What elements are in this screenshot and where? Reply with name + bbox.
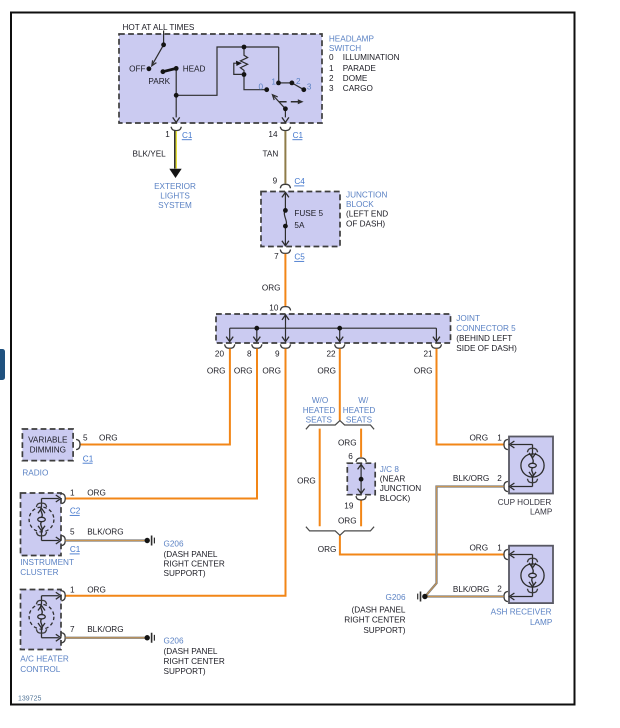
svg-text:3: 3 — [329, 84, 334, 93]
svg-text:SYSTEM: SYSTEM — [158, 201, 192, 210]
svg-text:ASH RECEIVER: ASH RECEIVER — [491, 608, 552, 617]
svg-text:LIGHTS: LIGHTS — [160, 191, 190, 200]
svg-text:SUPPORT): SUPPORT) — [164, 569, 206, 578]
svg-text:ORG: ORG — [414, 367, 433, 376]
svg-text:JUNCTION: JUNCTION — [346, 191, 387, 200]
svg-text:2: 2 — [329, 74, 334, 83]
svg-text:1: 1 — [271, 77, 276, 86]
svg-text:1: 1 — [329, 64, 334, 73]
svg-text:C1: C1 — [293, 131, 304, 140]
svg-text:19: 19 — [344, 501, 354, 510]
svg-text:5: 5 — [70, 527, 75, 536]
svg-text:CARGO: CARGO — [343, 84, 373, 93]
svg-text:21: 21 — [423, 350, 433, 359]
svg-text:PARADE: PARADE — [343, 64, 377, 73]
svg-text:3: 3 — [307, 82, 312, 91]
svg-text:8: 8 — [247, 350, 252, 359]
svg-text:(DASH PANEL: (DASH PANEL — [164, 550, 218, 559]
svg-text:0: 0 — [259, 82, 264, 91]
svg-text:RADIO: RADIO — [22, 468, 48, 477]
svg-text:BLK/ORG: BLK/ORG — [453, 585, 489, 594]
svg-text:RIGHT CENTER: RIGHT CENTER — [164, 559, 225, 568]
svg-text:JUNCTION: JUNCTION — [380, 484, 421, 493]
svg-text:(LEFT END: (LEFT END — [346, 210, 388, 219]
svg-text:ORG: ORG — [234, 367, 253, 376]
svg-text:HEADLAMP: HEADLAMP — [329, 34, 375, 43]
svg-text:DIMMING: DIMMING — [30, 446, 66, 455]
svg-text:HEAD: HEAD — [183, 65, 206, 74]
svg-text:C1: C1 — [182, 131, 193, 140]
svg-text:C1: C1 — [70, 545, 81, 554]
svg-text:BLK/ORG: BLK/ORG — [453, 474, 489, 483]
svg-text:ORG: ORG — [207, 367, 226, 376]
svg-text:JOINT: JOINT — [456, 314, 480, 323]
svg-text:CONNECTOR 5: CONNECTOR 5 — [456, 324, 516, 333]
svg-text:CUP HOLDER: CUP HOLDER — [498, 498, 552, 507]
svg-text:6: 6 — [348, 452, 353, 461]
svg-text:C4: C4 — [294, 177, 305, 186]
svg-text:C1: C1 — [83, 454, 94, 463]
svg-text:SWITCH: SWITCH — [329, 44, 361, 53]
svg-text:EXTERIOR: EXTERIOR — [154, 182, 196, 191]
svg-text:CONTROL: CONTROL — [20, 665, 60, 674]
svg-text:LAMP: LAMP — [530, 507, 553, 516]
svg-text:ORG: ORG — [87, 489, 106, 498]
svg-text:ORG: ORG — [99, 434, 118, 443]
svg-text:7: 7 — [70, 625, 75, 634]
svg-text:BLOCK): BLOCK) — [380, 494, 411, 503]
svg-text:(DASH PANEL: (DASH PANEL — [352, 605, 406, 614]
svg-text:VARIABLE: VARIABLE — [28, 435, 68, 444]
svg-text:RIGHT CENTER: RIGHT CENTER — [344, 616, 405, 625]
svg-text:RIGHT CENTER: RIGHT CENTER — [164, 657, 225, 666]
svg-text:1: 1 — [70, 489, 75, 498]
svg-text:22: 22 — [326, 350, 336, 359]
svg-text:SIDE OF DASH): SIDE OF DASH) — [456, 344, 517, 353]
svg-text:2: 2 — [497, 474, 502, 483]
svg-text:ORG: ORG — [338, 517, 357, 526]
svg-text:10: 10 — [269, 303, 279, 312]
svg-text:INSTRUMENT: INSTRUMENT — [20, 558, 74, 567]
svg-text:TAN: TAN — [263, 150, 279, 159]
svg-text:(DASH PANEL: (DASH PANEL — [164, 647, 218, 656]
svg-text:ORG: ORG — [469, 543, 488, 552]
svg-text:20: 20 — [215, 350, 225, 359]
svg-text:1: 1 — [497, 543, 502, 552]
svg-text:9: 9 — [273, 177, 278, 186]
svg-text:J/C 8: J/C 8 — [380, 465, 400, 474]
svg-text:C5: C5 — [294, 253, 305, 262]
svg-text:OF DASH): OF DASH) — [346, 219, 385, 228]
svg-text:SEATS: SEATS — [306, 415, 333, 424]
svg-text:BLK/ORG: BLK/ORG — [87, 625, 123, 634]
svg-text:1: 1 — [70, 586, 75, 595]
svg-text:SUPPORT): SUPPORT) — [164, 667, 206, 676]
svg-text:ORG: ORG — [87, 586, 106, 595]
svg-text:2: 2 — [497, 584, 502, 593]
svg-text:(BEHIND LEFT: (BEHIND LEFT — [456, 334, 512, 343]
svg-text:ORG: ORG — [338, 439, 357, 448]
svg-text:1: 1 — [165, 130, 170, 139]
svg-text:HEATED: HEATED — [303, 406, 336, 415]
svg-text:139725: 139725 — [18, 696, 41, 703]
svg-text:G206: G206 — [164, 637, 184, 646]
svg-text:BLK/YEL: BLK/YEL — [133, 150, 167, 159]
svg-text:ORG: ORG — [297, 477, 316, 486]
svg-text:G206: G206 — [385, 593, 405, 602]
svg-text:ORG: ORG — [318, 545, 337, 554]
svg-text:1: 1 — [497, 433, 502, 442]
svg-text:FUSE 5: FUSE 5 — [294, 209, 323, 218]
svg-text:PARK: PARK — [148, 77, 170, 86]
svg-text:SEATS: SEATS — [346, 415, 373, 424]
svg-text:2: 2 — [296, 77, 301, 86]
svg-text:9: 9 — [275, 350, 280, 359]
svg-text:7: 7 — [274, 252, 279, 261]
svg-text:HEATED: HEATED — [343, 406, 376, 415]
svg-text:ORG: ORG — [469, 433, 488, 442]
svg-text:OFF: OFF — [129, 65, 145, 74]
svg-text:SUPPORT): SUPPORT) — [363, 626, 405, 635]
svg-text:BLOCK: BLOCK — [346, 200, 374, 209]
svg-text:5A: 5A — [294, 221, 305, 230]
svg-text:0: 0 — [329, 53, 334, 62]
svg-text:CLUSTER: CLUSTER — [20, 568, 58, 577]
svg-text:C2: C2 — [70, 507, 81, 516]
svg-text:ORG: ORG — [262, 283, 281, 292]
svg-text:W/O: W/O — [312, 396, 328, 405]
svg-text:W/: W/ — [358, 396, 369, 405]
svg-text:(NEAR: (NEAR — [380, 475, 406, 484]
svg-text:A/C HEATER: A/C HEATER — [20, 655, 69, 664]
svg-text:HOT AT ALL TIMES: HOT AT ALL TIMES — [123, 23, 195, 32]
svg-text:DOME: DOME — [343, 74, 368, 83]
svg-text:LAMP: LAMP — [530, 618, 553, 627]
svg-text:G206: G206 — [164, 540, 184, 549]
svg-text:ORG: ORG — [317, 367, 336, 376]
svg-text:5: 5 — [83, 434, 88, 443]
svg-text:BLK/ORG: BLK/ORG — [87, 527, 123, 536]
svg-text:14: 14 — [268, 130, 278, 139]
svg-text:ORG: ORG — [262, 367, 281, 376]
svg-text:ILLUMINATION: ILLUMINATION — [343, 53, 400, 62]
